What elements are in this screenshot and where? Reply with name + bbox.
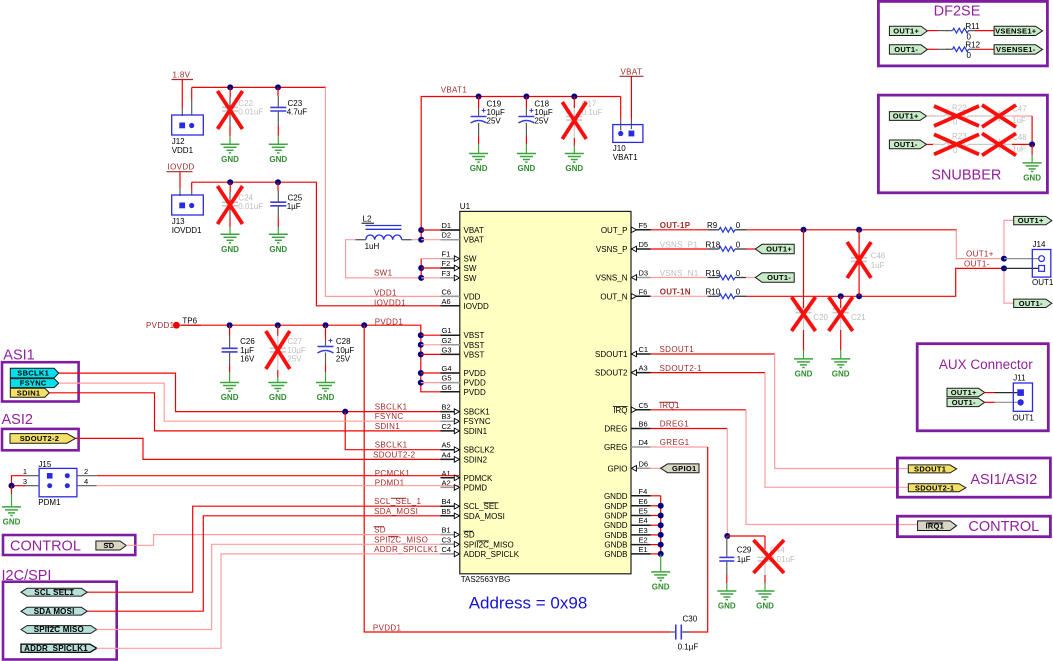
wire VDD1 net rail to U1 C6 bbox=[325, 87, 459, 296]
capacitor C46 1uF (DNP crossed out) across outputs bbox=[858, 230, 860, 257]
X mark over C22 bbox=[218, 91, 243, 129]
svg-text:D5: D5 bbox=[639, 240, 649, 249]
svg-text:C1: C1 bbox=[639, 345, 649, 354]
svg-text:SCL SEL1: SCL SEL1 bbox=[34, 588, 74, 597]
svg-text:F6: F6 bbox=[639, 287, 648, 296]
ground below C22 bbox=[221, 144, 240, 164]
svg-text:GNDD: GNDD bbox=[604, 521, 628, 530]
net flag SDIN1 bbox=[10, 388, 49, 397]
net flag FSYNC bbox=[10, 379, 59, 388]
svg-text:A4: A4 bbox=[442, 450, 451, 459]
svg-text:25V: 25V bbox=[487, 117, 502, 126]
svg-text:4.7uF: 4.7uF bbox=[287, 107, 308, 116]
svg-text:D2: D2 bbox=[442, 231, 452, 240]
resistor R9 0 bbox=[708, 227, 747, 232]
wire IRQ1 C5 to CONTROL box bbox=[651, 409, 747, 411]
wire J15 pin4 PDMD1 to U1 A2 bbox=[77, 485, 97, 487]
ground below C27 bbox=[268, 383, 287, 403]
svg-text:OUT1+: OUT1+ bbox=[766, 245, 792, 254]
svg-text:IRQ: IRQ bbox=[613, 406, 627, 415]
wire J14 pin2 lead bbox=[1004, 267, 1039, 269]
wire OUT_N F6 to R10 bbox=[651, 295, 708, 297]
wire U1 D1 VBAT bbox=[421, 229, 460, 231]
box ASI2 bbox=[2, 429, 79, 450]
svg-text:OUT_P: OUT_P bbox=[601, 226, 628, 235]
svg-text:PDMCK: PDMCK bbox=[464, 474, 494, 483]
svg-text:SCL_SEL: SCL_SEL bbox=[464, 502, 500, 511]
wire OUT1- to R12 bbox=[927, 48, 937, 50]
wire SDOUT1 C1 to ASI box bbox=[651, 353, 775, 355]
svg-text:GND: GND bbox=[756, 602, 774, 611]
svg-text:B4: B4 bbox=[442, 497, 451, 506]
svg-text:VSENSE1+: VSENSE1+ bbox=[995, 26, 1037, 35]
net flag SBCLK1 bbox=[10, 368, 59, 378]
capacitor C23 4.7uF bbox=[277, 87, 279, 96]
svg-text:SPII2C MISO: SPII2C MISO bbox=[34, 625, 84, 634]
svg-text:C18: C18 bbox=[534, 99, 549, 108]
net flag OUT1- snubber bbox=[889, 140, 926, 149]
wire snubber gnd stem bbox=[1031, 144, 1033, 155]
junction dot D1 bbox=[418, 227, 424, 233]
svg-text:16V: 16V bbox=[240, 354, 255, 363]
svg-text:SDIN1: SDIN1 bbox=[375, 422, 401, 431]
svg-text:GND: GND bbox=[317, 393, 335, 402]
wire J12 pin2 riser bbox=[191, 99, 193, 115]
svg-text:J14: J14 bbox=[1033, 240, 1046, 249]
svg-text:SDA_MOSI: SDA_MOSI bbox=[464, 512, 505, 521]
svg-text:C28: C28 bbox=[336, 337, 351, 346]
wire SDIN1 to U1 C2 bbox=[49, 393, 460, 431]
wire PVDD1 rail bbox=[180, 324, 422, 326]
svg-text:F1: F1 bbox=[442, 250, 451, 259]
svg-text:R18: R18 bbox=[706, 240, 721, 249]
net flag SD bbox=[96, 541, 126, 550]
wire 1.8V to J12 pin1 bbox=[181, 80, 183, 109]
svg-text:SDOUT2-2: SDOUT2-2 bbox=[20, 434, 60, 443]
svg-text:2: 2 bbox=[84, 467, 88, 476]
X mark over C27 bbox=[266, 331, 290, 369]
svg-text:F4: F4 bbox=[639, 487, 648, 496]
wire OUT1- snubber bbox=[927, 143, 936, 145]
junction dots VBST/PVDD pins bbox=[418, 332, 424, 338]
svg-text:OUT1-: OUT1- bbox=[952, 398, 976, 407]
junction dots PVDD1 rail bbox=[227, 322, 233, 328]
svg-text:SDOUT1: SDOUT1 bbox=[660, 345, 695, 354]
svg-text:GREG1: GREG1 bbox=[660, 438, 690, 447]
wire DREG1 branch to C44 bbox=[727, 535, 765, 537]
junction dot DREG1 C29 bbox=[724, 533, 730, 539]
wire J15 pin2 PCMCK1 to U1 A1 bbox=[77, 475, 97, 477]
svg-text:SD: SD bbox=[103, 541, 114, 550]
svg-text:GND: GND bbox=[832, 370, 850, 379]
svg-text:C2: C2 bbox=[442, 422, 452, 431]
svg-text:SD: SD bbox=[464, 531, 475, 540]
net flag OUT1+ DF2SE bbox=[889, 26, 927, 35]
svg-text:SDOUT2-1: SDOUT2-1 bbox=[915, 483, 955, 492]
capacitor C21 (DNP crossed out) to GND bbox=[840, 296, 842, 308]
svg-text:C6: C6 bbox=[442, 287, 452, 296]
wire OUT1- aux to J11 bbox=[985, 401, 995, 403]
resistor R22 0 (DNP crossed out) bbox=[933, 114, 980, 119]
ground below C26 bbox=[220, 383, 239, 403]
svg-text:OUT1+: OUT1+ bbox=[1018, 216, 1044, 225]
wire OUT1+ to flag bbox=[1004, 220, 1014, 255]
svg-text:IOVDD: IOVDD bbox=[464, 302, 490, 311]
net flag SDA_MOSI bbox=[21, 607, 87, 616]
ground below C29 bbox=[717, 591, 736, 611]
svg-text:E4: E4 bbox=[639, 516, 648, 525]
svg-text:C29: C29 bbox=[737, 545, 752, 554]
wire J13 pin2 riser bbox=[191, 190, 193, 195]
capacitor C22 0.01uF (DNP crossed out) bbox=[229, 87, 231, 97]
wire R18 to OUT1+ flag bbox=[746, 248, 756, 250]
svg-text:G3: G3 bbox=[442, 345, 452, 354]
svg-text:VSNS_N: VSNS_N bbox=[595, 274, 627, 283]
wire SDOUT2-2 to U1 A4 bbox=[76, 438, 460, 459]
junction dot OUT1+ bbox=[1001, 256, 1007, 262]
svg-text:ADDR_SPICLK: ADDR_SPICLK bbox=[464, 550, 520, 559]
ground below U1 E pins bbox=[651, 572, 670, 592]
wire J14 pin1 lead bbox=[1004, 258, 1039, 260]
svg-text:ADDR_SPICLK1: ADDR_SPICLK1 bbox=[374, 545, 438, 554]
wire IOVDD to J13 pin1 bbox=[179, 172, 181, 188]
svg-text:TP6: TP6 bbox=[182, 317, 197, 326]
svg-text:GND: GND bbox=[718, 602, 736, 611]
svg-text:0: 0 bbox=[736, 240, 741, 249]
wire ADDR_SPICLK1 to U1 C4 bbox=[97, 554, 460, 648]
svg-text:OUT1-: OUT1- bbox=[964, 259, 990, 268]
wire U1 F1 SW bbox=[421, 258, 460, 260]
net flag VSENSE1- bbox=[994, 45, 1042, 54]
capacitor C29 1uF bbox=[726, 536, 728, 557]
svg-text:OUT1+: OUT1+ bbox=[893, 26, 919, 35]
box I2C/SPI bbox=[3, 582, 117, 660]
svg-text:PVDD: PVDD bbox=[464, 388, 486, 397]
capacitor C19 10uF 25V polarized bbox=[478, 97, 480, 109]
capacitor C28 10uF 25V polarized bbox=[325, 325, 327, 339]
svg-text:PCMCK1: PCMCK1 bbox=[375, 469, 411, 478]
IC U1 TAS2563YBG body bbox=[460, 211, 631, 573]
wire VBAT1 rail bbox=[421, 96, 621, 98]
svg-text:FSYNC: FSYNC bbox=[20, 379, 47, 388]
wire PVDD1 vertical to bottom C30 bbox=[364, 325, 670, 632]
svg-text:VBST: VBST bbox=[464, 350, 485, 359]
svg-text:C21: C21 bbox=[851, 313, 866, 322]
svg-text:GND: GND bbox=[470, 164, 488, 173]
svg-text:VBST: VBST bbox=[464, 341, 485, 350]
svg-text:25V: 25V bbox=[534, 117, 549, 126]
box AUX Connector bbox=[917, 344, 1048, 431]
svg-text:G5: G5 bbox=[442, 374, 452, 383]
svg-text:0: 0 bbox=[736, 269, 741, 278]
svg-text:VBST: VBST bbox=[464, 331, 485, 340]
X mark over C20 bbox=[792, 297, 816, 331]
wire U1 G1 VBST bbox=[421, 334, 460, 336]
junction dot D2 bbox=[418, 237, 424, 243]
svg-text:GND: GND bbox=[518, 164, 536, 173]
svg-text:DF2SE: DF2SE bbox=[934, 3, 981, 19]
box SNUBBER bbox=[878, 95, 1047, 193]
svg-text:C26: C26 bbox=[240, 337, 255, 346]
svg-text:SBCLK2: SBCLK2 bbox=[464, 446, 495, 455]
net flag GPIO1 bbox=[661, 464, 699, 473]
svg-text:GND: GND bbox=[3, 518, 21, 527]
capacitor C47 1uF (DNP crossed out) bbox=[980, 111, 1012, 122]
svg-text:F3: F3 bbox=[442, 269, 451, 278]
svg-text:CONTROL: CONTROL bbox=[968, 519, 1039, 535]
svg-text:1: 1 bbox=[23, 467, 27, 476]
svg-text:D1: D1 bbox=[442, 221, 452, 230]
wire OUT1- jog bbox=[956, 268, 1004, 296]
svg-text:SDIN1: SDIN1 bbox=[464, 427, 488, 436]
U1 pin arrows left bbox=[454, 256, 459, 557]
svg-text:SBCLK1: SBCLK1 bbox=[375, 441, 408, 450]
junction dot C20 tap bbox=[801, 227, 807, 233]
capacitor C30 0.1uF series bbox=[676, 625, 682, 640]
svg-text:1uF: 1uF bbox=[871, 261, 885, 270]
svg-text:DREG1: DREG1 bbox=[660, 420, 690, 429]
wire GREG1 D4 to C30 bbox=[651, 446, 708, 448]
wire OUT_P F5 to R9 bbox=[651, 229, 708, 231]
svg-text:C5: C5 bbox=[639, 401, 649, 410]
net flag OUT1+ at R18 bbox=[755, 244, 794, 253]
connector J10 VBAT1 bbox=[613, 125, 643, 143]
connector J13 IOVDD1 bbox=[172, 195, 204, 215]
wire U1 G2 VBST bbox=[421, 344, 460, 346]
svg-text:OUT1-: OUT1- bbox=[894, 45, 918, 54]
net flag IRQ1 bbox=[918, 521, 957, 531]
junction dot C46 bottom bbox=[856, 293, 862, 299]
wire SDA_MOSI to U1 B5 bbox=[87, 516, 460, 611]
svg-text:VBAT: VBAT bbox=[464, 226, 484, 235]
svg-text:GND: GND bbox=[1023, 174, 1041, 183]
svg-text:GND: GND bbox=[269, 393, 287, 402]
svg-text:F2: F2 bbox=[442, 259, 451, 268]
svg-text:SDIN1: SDIN1 bbox=[17, 388, 41, 397]
wire F4 GNDD down bbox=[651, 495, 661, 497]
svg-text:C30: C30 bbox=[683, 614, 698, 623]
wire OUT1- to flag bbox=[1004, 271, 1014, 303]
svg-text:0: 0 bbox=[736, 221, 741, 230]
svg-text:VSNS_N1: VSNS_N1 bbox=[660, 269, 699, 278]
net flag OUT1+ aux bbox=[947, 388, 985, 397]
svg-text:J10: J10 bbox=[613, 144, 626, 153]
svg-text:E6: E6 bbox=[639, 497, 648, 506]
svg-text:FSYNC: FSYNC bbox=[464, 417, 491, 426]
X mark over C48 bbox=[982, 133, 1016, 155]
svg-text:E1: E1 bbox=[639, 545, 648, 554]
svg-text:SDOUT1: SDOUT1 bbox=[595, 350, 628, 359]
net flag ADDR_SPICLK1 bbox=[21, 644, 97, 653]
X mark over C46 bbox=[847, 242, 871, 278]
net flag OUT1- aux bbox=[947, 398, 985, 407]
svg-text:B2: B2 bbox=[442, 403, 451, 412]
svg-text:25V: 25V bbox=[336, 354, 351, 363]
ground below C18 bbox=[517, 154, 536, 174]
svg-text:1µF: 1µF bbox=[737, 555, 751, 564]
svg-text:F5: F5 bbox=[639, 221, 648, 230]
svg-text:0.01uF: 0.01uF bbox=[238, 107, 263, 116]
wire SW1 net from L2 to F3 bbox=[346, 240, 422, 278]
wire VBAT to J10 pin2 bbox=[630, 76, 632, 119]
wire J15 pin1 to ground bbox=[25, 475, 39, 477]
svg-text:VSENSE1-: VSENSE1- bbox=[996, 45, 1036, 54]
junction dot C21 top bbox=[838, 293, 844, 299]
svg-text:0.1µF: 0.1µF bbox=[678, 642, 699, 651]
inductor L2 1uH bbox=[356, 226, 412, 240]
svg-text:FSYNC: FSYNC bbox=[375, 412, 404, 421]
svg-text:GND: GND bbox=[269, 245, 287, 254]
svg-text:IOVDD1: IOVDD1 bbox=[374, 298, 406, 307]
svg-text:SBCLK1: SBCLK1 bbox=[375, 403, 408, 412]
svg-text:OUT1-: OUT1- bbox=[894, 140, 918, 149]
resistor R19 0 bbox=[708, 275, 747, 280]
X mark over R22 bbox=[934, 106, 979, 126]
svg-text:0: 0 bbox=[967, 51, 972, 60]
svg-text:R11: R11 bbox=[965, 22, 980, 31]
svg-text:0.01uF: 0.01uF bbox=[238, 202, 263, 211]
svg-text:CONTROL: CONTROL bbox=[10, 539, 81, 555]
svg-text:VBAT: VBAT bbox=[464, 236, 484, 245]
wire U1 F3 SW bbox=[421, 277, 460, 279]
svg-text:B1: B1 bbox=[442, 526, 451, 535]
svg-text:OUT1: OUT1 bbox=[1013, 413, 1035, 422]
svg-text:SNUBBER: SNUBBER bbox=[931, 167, 1001, 183]
svg-text:OUT1+: OUT1+ bbox=[893, 112, 919, 121]
capacitor C18 10uF 25V polarized bbox=[525, 97, 527, 109]
svg-text:OUT-1N: OUT-1N bbox=[660, 288, 691, 297]
X mark over C47 bbox=[982, 105, 1016, 127]
svg-text:A3: A3 bbox=[639, 364, 648, 373]
svg-text:ADDR_SPICLK1: ADDR_SPICLK1 bbox=[24, 644, 88, 653]
svg-text:GND: GND bbox=[652, 583, 670, 592]
ground below J15 bbox=[2, 507, 21, 527]
test point TP6 bbox=[173, 322, 180, 329]
net flag SDOUT2-1 bbox=[908, 483, 966, 492]
wire OUT1+ aux to J11 bbox=[985, 392, 995, 394]
svg-text:C46: C46 bbox=[871, 251, 886, 260]
wire J15 pin3 to ground bbox=[25, 485, 39, 487]
svg-text:TAS2563YBG: TAS2563YBG bbox=[461, 575, 511, 584]
wire IOVDD1 net rail to U1 A6 bbox=[316, 182, 459, 306]
svg-text:GND: GND bbox=[221, 155, 239, 164]
resistor R11 0 bbox=[946, 28, 975, 33]
svg-text:C27: C27 bbox=[287, 337, 302, 346]
wire U1 F2 SW bbox=[421, 267, 460, 269]
svg-text:U1: U1 bbox=[460, 202, 471, 211]
svg-text:GND: GND bbox=[565, 164, 583, 173]
wire U1 G5 PVDD bbox=[421, 382, 460, 384]
capacitor C48 1uF (DNP crossed out) bbox=[980, 139, 1012, 150]
capacitor C26 1uF 16V bbox=[229, 325, 231, 336]
junction dots 1.8V rail bbox=[227, 84, 233, 90]
net flag OUT1- bottom right bbox=[1014, 299, 1052, 308]
wire 1.8V rail bbox=[192, 86, 326, 88]
connector J12 VDD1 bbox=[172, 115, 204, 135]
wire VSNS_N D3 to R19 bbox=[651, 277, 708, 279]
svg-text:SW: SW bbox=[464, 274, 477, 283]
box ASI1/ASI2 bbox=[897, 458, 1050, 497]
svg-text:OUT_N: OUT_N bbox=[600, 292, 627, 301]
svg-text:25V: 25V bbox=[287, 354, 302, 363]
ground snubber bbox=[1023, 163, 1042, 183]
svg-text:IOVDD: IOVDD bbox=[168, 163, 195, 172]
svg-text:R12: R12 bbox=[965, 41, 980, 50]
junction dot F3 bbox=[418, 275, 424, 281]
net flag OUT1- at R19 bbox=[755, 273, 794, 282]
wire VSNS_P D5 to R18 bbox=[651, 248, 708, 250]
capacitor C20 (DNP crossed out) to GND bbox=[803, 230, 805, 308]
svg-text:VSNS_P1: VSNS_P1 bbox=[660, 240, 699, 249]
svg-text:SPII2C_MISO: SPII2C_MISO bbox=[374, 535, 428, 544]
svg-text:PDMD: PDMD bbox=[464, 483, 488, 492]
ground below C44 bbox=[756, 591, 775, 611]
svg-text:D3: D3 bbox=[639, 269, 649, 278]
svg-text:4: 4 bbox=[84, 477, 88, 486]
svg-text:GNDB: GNDB bbox=[604, 531, 627, 540]
box CONTROL right bbox=[897, 516, 1050, 537]
connector J11 OUT1 bbox=[1013, 383, 1032, 411]
svg-text:E2: E2 bbox=[639, 536, 648, 545]
svg-text:SPII2C_MISO: SPII2C_MISO bbox=[464, 540, 514, 549]
net flag OUT1+ top right bbox=[1014, 216, 1052, 225]
wire SPI2C_MISO to U1 C3 bbox=[97, 544, 460, 629]
svg-text:OUT1-: OUT1- bbox=[1019, 299, 1043, 308]
ground below C23 bbox=[269, 144, 288, 164]
svg-text:0: 0 bbox=[736, 288, 741, 297]
svg-text:D6: D6 bbox=[639, 459, 649, 468]
svg-text:SDA MOSI: SDA MOSI bbox=[34, 607, 75, 616]
wire DREG1 B6 to C29 bbox=[651, 428, 728, 430]
svg-text:SDIN2: SDIN2 bbox=[464, 455, 488, 464]
ground below C24 bbox=[221, 234, 240, 254]
wire VBAT1 rail to J10 pin1 bbox=[620, 97, 622, 120]
wire U1 G4 PVDD bbox=[421, 372, 460, 374]
svg-text:GREG: GREG bbox=[604, 443, 628, 452]
svg-text:G1: G1 bbox=[442, 326, 452, 335]
svg-text:G2: G2 bbox=[442, 336, 452, 345]
wire to GND bbox=[11, 486, 13, 494]
capacitor C44 0.01uF (DNP crossed out) bbox=[764, 549, 766, 557]
resistor R10 0 bbox=[708, 294, 747, 299]
svg-text:GND: GND bbox=[269, 155, 287, 164]
wire R19 to OUT1- flag bbox=[746, 277, 756, 279]
wire U1 G3 VBST bbox=[421, 353, 460, 355]
X mark over C17 bbox=[562, 102, 586, 139]
svg-text:VBAT1: VBAT1 bbox=[613, 153, 638, 162]
svg-text:GPIO1: GPIO1 bbox=[672, 464, 696, 473]
svg-text:L2: L2 bbox=[363, 214, 372, 223]
wire OUT1+ snubber bbox=[927, 115, 936, 117]
X mark over C44 bbox=[754, 540, 785, 573]
svg-text:A1: A1 bbox=[442, 469, 451, 478]
svg-text:VBAT: VBAT bbox=[621, 67, 643, 76]
junction dot C46 top bbox=[856, 227, 862, 233]
svg-text:AUX Connector: AUX Connector bbox=[939, 357, 1033, 372]
wire SW vertical F1-F3 bbox=[420, 259, 422, 278]
junction dots IOVDD rail bbox=[227, 179, 233, 185]
ground below C19 bbox=[469, 154, 488, 174]
wire OUT1+ to R11 bbox=[927, 30, 937, 32]
wire OUT-1P rail bbox=[746, 229, 957, 231]
svg-text:J15: J15 bbox=[38, 460, 51, 469]
svg-text:0.1uF: 0.1uF bbox=[582, 108, 603, 117]
ground below C20 bbox=[794, 359, 813, 379]
svg-text:GND: GND bbox=[221, 245, 239, 254]
svg-text:PVDD1: PVDD1 bbox=[373, 624, 402, 633]
capacitor C27 10uF 25V (DNP crossed out) bbox=[277, 325, 279, 336]
wire OUT1+ jog bbox=[956, 230, 1004, 259]
